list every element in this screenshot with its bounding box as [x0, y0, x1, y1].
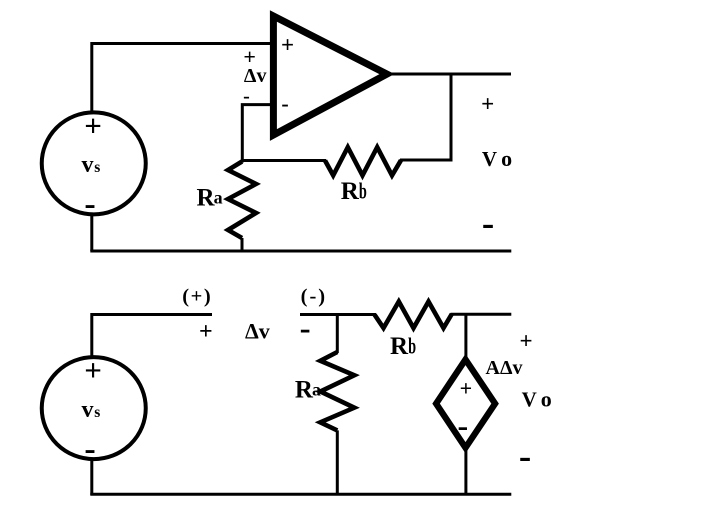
- svg-text:Δv: Δv: [245, 319, 270, 344]
- svg-text:Vo: Vo: [482, 146, 512, 171]
- svg-text:Δv: Δv: [244, 65, 267, 87]
- wire vs bottom terminal to bottom rail: [90, 214, 93, 251]
- svg-text:Ra: Ra: [295, 376, 321, 403]
- svg-text:+: +: [481, 91, 494, 116]
- resistor Ra (bottom circuit): [320, 352, 354, 495]
- wire op-amp output: [390, 73, 511, 76]
- wire resistor Rb right lead to output node (bottom circuit): [451, 313, 512, 316]
- wire output node down to dependent source (bottom circuit): [464, 315, 467, 363]
- svg-text:-: -: [457, 407, 468, 443]
- wire vs top terminal to node (+) (bottom circuit): [92, 315, 212, 359]
- svg-text:-: -: [84, 430, 95, 467]
- svg-text:+: +: [84, 352, 102, 387]
- wire feedback node vertical to output wire: [450, 74, 453, 162]
- wire node (-) down to resistor Ra (bottom circuit): [336, 315, 339, 354]
- svg-text:+: +: [519, 328, 532, 353]
- svg-text:(-): (-): [301, 285, 327, 307]
- svg-text:-: -: [519, 436, 531, 477]
- resistor Rb (top circuit): [325, 147, 401, 175]
- svg-text:+: +: [84, 108, 102, 143]
- bottom rail (top circuit): [90, 250, 511, 253]
- wire node (-) to output node (bottom circuit): [300, 313, 376, 316]
- svg-text:-: -: [300, 311, 311, 347]
- svg-text:-: -: [281, 91, 288, 116]
- op-amp U1: [273, 16, 387, 135]
- svg-text:-: -: [482, 203, 494, 244]
- svg-text:+: +: [460, 375, 473, 400]
- voltage source vs (top circuit): [42, 112, 146, 214]
- wire node A to resistor Rb left lead: [243, 159, 327, 162]
- svg-text:Vo: Vo: [522, 386, 552, 411]
- wire resistor Rb right lead to feedback node: [400, 159, 453, 162]
- resistor Ra (top circuit): [228, 162, 256, 253]
- wire vs bottom terminal to bottom rail (bottom circuit): [90, 459, 93, 495]
- svg-text:Rb: Rb: [341, 178, 367, 205]
- svg-text:-: -: [243, 86, 250, 108]
- svg-text:+: +: [199, 319, 213, 345]
- svg-text:(+): (+): [182, 286, 212, 308]
- wire dependent source bottom to rail (bottom circuit): [464, 445, 467, 495]
- svg-text:Ra: Ra: [197, 184, 223, 211]
- voltage source vs (bottom circuit): [42, 357, 146, 459]
- svg-text:AΔv: AΔv: [486, 357, 523, 379]
- bottom rail (bottom circuit): [90, 493, 511, 496]
- svg-text:-: -: [84, 186, 95, 223]
- dependent source A-Delta-v (diamond): [436, 360, 495, 448]
- resistor Rb (bottom circuit): [375, 302, 452, 329]
- svg-text:+: +: [281, 33, 294, 58]
- wire op-amp inverting input down to node A: [242, 105, 276, 163]
- wire vs top terminal to op-amp noninverting input: [92, 44, 276, 113]
- svg-text:Rb: Rb: [390, 333, 416, 360]
